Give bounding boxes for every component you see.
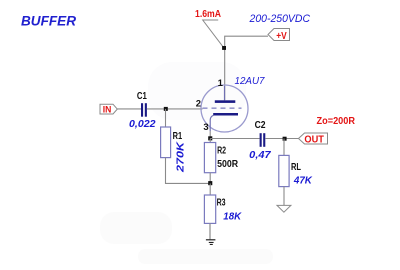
junction cathode node [208,136,212,140]
svg-text:Zo=200R: Zo=200R [317,115,356,127]
leader line for 1.6mA [203,20,224,48]
svg-text:OUT: OUT [304,134,324,145]
junction grid node [164,107,168,111]
wire RL to ground [283,187,285,206]
wire cathode to output node [209,131,211,139]
svg-text:47K: 47K [293,175,313,187]
svg-text:C1: C1 [137,90,147,102]
faint background shading (scan artifacts) [100,62,273,264]
svg-text:C2: C2 [255,119,266,131]
wire grid node to R1 [165,109,167,127]
svg-text:500R: 500R [217,158,238,170]
capacitor C2 [260,133,266,147]
anode pin line [224,86,226,100]
svg-text:270K: 270K [175,140,187,173]
wire C2 to OUT [265,138,298,140]
wire R3 to ground [209,223,211,239]
wire R1 bottom to bias node [166,158,211,184]
svg-text:R1: R1 [173,130,183,142]
svg-text:18K: 18K [223,210,242,222]
power flag +V [268,29,290,42]
resistor R2 [204,143,215,173]
resistor R3 [204,195,215,223]
capacitor C1 [141,103,147,117]
wire plate to +V [225,36,268,100]
svg-text:3: 3 [203,122,208,133]
svg-text:1: 1 [218,78,224,89]
triode V1 envelope [201,85,248,132]
anode plate [215,100,236,103]
svg-text:R2: R2 [217,144,226,156]
svg-text:1.6mA: 1.6mA [195,9,221,20]
svg-text:12AU7: 12AU7 [235,75,266,87]
svg-text:0,022: 0,022 [129,118,156,130]
ground (earth) under R3 [206,239,216,245]
wire IN to C1 [117,108,141,110]
resistor RL [279,155,289,186]
svg-text:+V: +V [276,31,287,42]
cathode [210,113,238,131]
svg-text:200-250VDC: 200-250VDC [249,13,311,25]
wire R2 to bias node [209,173,211,184]
svg-text:0,47: 0,47 [249,149,272,161]
junction output node [283,137,287,141]
output flag OUT [299,133,328,145]
svg-text:BUFFER: BUFFER [21,14,76,29]
wire bias node to R3 [209,183,211,195]
junction measurement point [222,46,226,50]
wire C1 to grid [147,108,203,110]
resistor R1 [161,127,171,158]
svg-text:2: 2 [196,99,201,110]
ground (triangle) under RL [277,205,291,212]
svg-text:RL: RL [291,161,301,173]
grid (dashed) [203,107,242,109]
input flag IN [100,104,117,115]
wire cathode node to C2 [210,138,259,140]
svg-text:R3: R3 [217,196,226,208]
junction bias node [208,181,212,185]
wire cathode node to R2 [209,139,211,143]
svg-text:IN: IN [103,105,112,116]
wire output node to RL [283,139,285,156]
